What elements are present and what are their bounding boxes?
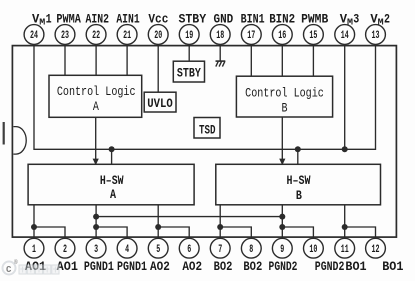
junction dot PGND2 on tie bus	[279, 214, 285, 220]
pin 9 circle (bottom)	[272, 238, 292, 258]
svg-text:1: 1	[32, 244, 36, 256]
svg-text:A: A	[110, 187, 116, 202]
arrow Control Logic A to H-SW A	[95, 117, 97, 162]
svg-text:22: 22	[92, 30, 100, 42]
pin 4 circle (bottom)	[117, 238, 137, 258]
svg-text:21: 21	[123, 30, 131, 42]
block H-SW A	[28, 164, 194, 205]
svg-text:19: 19	[185, 30, 193, 42]
svg-text:H–SW: H–SW	[100, 173, 124, 188]
svg-text:AIN2: AIN2	[86, 11, 110, 26]
wire H-SW output to PGND2 pin9	[281, 205, 283, 239]
pin 18 circle (top)	[210, 25, 230, 45]
svg-text:AO2: AO2	[182, 259, 202, 274]
wire H-SW output to BO2 pin7	[219, 205, 221, 239]
junction dot pair BO2 pin7	[217, 224, 223, 230]
pin 24 circle (top)	[24, 25, 44, 45]
arrow Control Logic B to H-SW B	[281, 117, 283, 162]
svg-text:10: 10	[309, 244, 317, 256]
svg-text:TSD: TSD	[199, 123, 216, 138]
svg-text:16: 16	[278, 30, 286, 42]
svg-text:14: 14	[341, 30, 349, 42]
junction dot VM bus / H-SW A	[109, 146, 115, 152]
svg-text:18: 18	[216, 30, 224, 42]
svg-text:3: 3	[353, 11, 359, 26]
svg-text:BO2: BO2	[243, 259, 262, 274]
svg-text:STBY: STBY	[178, 11, 206, 26]
wire PWMA pin23 to Control Logic A	[64, 45, 66, 76]
svg-text:Control Logic: Control Logic	[57, 84, 136, 99]
wire link to paired even pin 8	[220, 227, 251, 238]
pin 5 circle (bottom)	[148, 238, 168, 258]
svg-text:UVLO: UVLO	[147, 96, 173, 111]
pin 19 circle (top)	[179, 25, 199, 45]
pin 20 circle (top)	[148, 25, 168, 45]
svg-text:20: 20	[154, 30, 162, 42]
pin 16 circle (top)	[272, 25, 292, 45]
wire H-SW output to AO1 pin1	[33, 205, 35, 239]
wire STBY pin19 to STBY block	[188, 45, 190, 62]
svg-text:5: 5	[156, 244, 160, 256]
pin 8 circle (bottom)	[241, 238, 261, 258]
wire link to paired even pin 6	[158, 227, 189, 238]
svg-text:PGND2: PGND2	[269, 259, 298, 274]
scan artifact bar on left edge	[3, 122, 5, 145]
svg-text:BO2: BO2	[214, 259, 233, 274]
svg-text:AO1: AO1	[57, 259, 78, 274]
svg-text:B: B	[282, 100, 288, 115]
svg-text:15: 15	[309, 30, 317, 42]
svg-text:1: 1	[46, 11, 52, 26]
svg-text:PGND1: PGND1	[84, 259, 114, 274]
svg-text:AIN1: AIN1	[116, 11, 139, 26]
wire H-SW output to PGND1 pin3	[95, 205, 97, 239]
junction dot VM3 on VM bus	[342, 146, 348, 152]
svg-text:BO1: BO1	[382, 259, 403, 274]
svg-text:H–SW: H–SW	[287, 173, 311, 188]
block Control Logic B	[236, 76, 332, 117]
svg-text:PGND2: PGND2	[315, 259, 345, 274]
wire VM3 pin14 to VM bus	[344, 45, 346, 150]
block H-SW B	[216, 164, 381, 205]
wire H-SW output to AO2 pin5	[157, 205, 159, 239]
svg-text:B: B	[296, 188, 302, 203]
junction dot pair BO1 pin11	[342, 224, 348, 230]
pin-1 index notch on left edge	[13, 127, 26, 155]
block STBY	[173, 61, 204, 82]
pin 6 circle (bottom)	[179, 238, 199, 258]
pin 7 circle (bottom)	[210, 238, 230, 258]
svg-text:STBY: STBY	[177, 66, 201, 81]
svg-text:AO2: AO2	[150, 259, 170, 274]
wire PWMB pin15 to Control Logic B	[312, 45, 314, 77]
svg-text:4: 4	[125, 244, 129, 256]
wire VM bus stub to H-SW B	[297, 149, 299, 164]
pin 22 circle (top)	[86, 25, 106, 45]
svg-text:PWMA: PWMA	[56, 11, 81, 26]
junction dot PGND1 on tie bus	[93, 214, 99, 220]
block UVLO	[144, 92, 176, 112]
block Control Logic A	[49, 75, 142, 117]
pin 15 circle (top)	[304, 25, 324, 45]
svg-text:23: 23	[61, 30, 69, 42]
junction dot pair AO2 pin5	[155, 224, 161, 230]
svg-text:BIN1: BIN1	[241, 11, 265, 26]
block TSD	[194, 118, 220, 139]
pin 21 circle (top)	[117, 25, 137, 45]
ground symbol at GND pin18	[216, 45, 226, 67]
wire BIN2 pin16 to Control Logic B	[281, 45, 283, 77]
svg-text:9: 9	[280, 244, 284, 256]
svg-text:2: 2	[63, 244, 67, 256]
pin 3 circle (bottom)	[86, 238, 106, 258]
svg-text:GND: GND	[214, 11, 234, 26]
wire link to paired even pin 4	[96, 227, 127, 238]
svg-text:BIN2: BIN2	[269, 11, 295, 26]
svg-text:A: A	[93, 99, 99, 114]
svg-text:C: C	[6, 265, 12, 275]
svg-text:®: ®	[14, 259, 18, 266]
svg-text:BO1: BO1	[345, 259, 366, 274]
junction dot VM bus / H-SW B	[295, 146, 301, 152]
svg-text:12: 12	[372, 244, 380, 256]
svg-text:24: 24	[30, 30, 38, 42]
svg-text:2: 2	[384, 11, 390, 26]
junction dot pair AO1 pin1	[31, 224, 37, 230]
svg-text:Vcc: Vcc	[148, 11, 168, 26]
wire link to paired even pin 12	[345, 227, 376, 238]
svg-text:6: 6	[187, 244, 191, 256]
pin 12 circle (bottom)	[366, 238, 386, 258]
pin 2 circle (bottom)	[55, 238, 75, 258]
wire VM bus stub to H-SW A	[111, 149, 113, 164]
IC package outline	[12, 46, 396, 238]
svg-text:17: 17	[247, 30, 255, 42]
svg-text:7: 7	[218, 244, 222, 256]
pin 13 circle (top)	[366, 25, 386, 45]
pin 17 circle (top)	[241, 25, 261, 45]
wire BIN1 pin17 to Control Logic B	[250, 45, 252, 77]
svg-text:3: 3	[94, 244, 98, 256]
svg-text:8: 8	[249, 244, 253, 256]
svg-text:11: 11	[341, 244, 349, 256]
svg-text:13: 13	[372, 30, 380, 42]
svg-text:PWMB: PWMB	[301, 11, 328, 26]
pin 10 circle (bottom)	[304, 238, 324, 258]
svg-text:PGND1: PGND1	[117, 259, 147, 274]
svg-text:Control Logic: Control Logic	[245, 85, 324, 100]
junction dot pair PGND1 pin3	[93, 224, 99, 230]
wire AIN2 pin22 to Control Logic A	[95, 45, 97, 76]
pin 11 circle (bottom)	[335, 238, 355, 258]
pin 1 circle (bottom)	[24, 238, 44, 258]
wire link to paired even pin 10	[282, 227, 313, 238]
pin 23 circle (top)	[55, 25, 75, 45]
pin 14 circle (top)	[335, 25, 355, 45]
wire VM bus: pin24 VM1 down, across, up to pin13 VM2	[34, 45, 376, 150]
wire Vcc pin20 to UVLO	[157, 45, 159, 93]
junction dot pair PGND2 pin9	[279, 224, 285, 230]
watermark (faint site logo)	[3, 259, 60, 275]
wire H-SW output to BO1 pin11	[344, 205, 346, 239]
wire AIN1 pin21 to Control Logic A	[126, 45, 128, 76]
wire PGND1-PGND2 tie bus	[96, 216, 282, 218]
wire link to paired even pin 2	[34, 227, 65, 238]
